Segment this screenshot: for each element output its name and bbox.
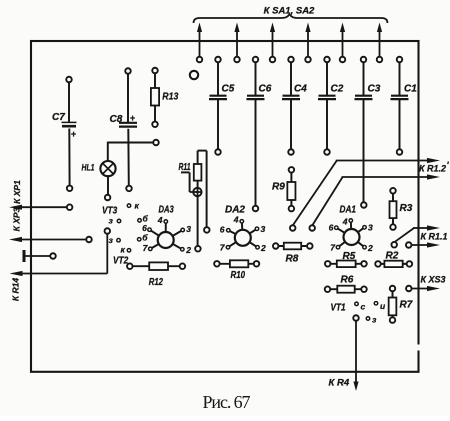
wire to R1.1 (lower) bbox=[411, 244, 429, 246]
svg-text:3: 3 bbox=[261, 224, 266, 234]
node diag pad 1 bbox=[290, 225, 296, 231]
node top pad 9 bbox=[340, 57, 346, 63]
op-amp DA3 bbox=[142, 205, 191, 255]
node HL1 bottom pad bbox=[105, 195, 111, 201]
svg-text:4: 4 bbox=[342, 217, 348, 227]
node VT2 base pad bbox=[137, 238, 141, 242]
wire bbox=[399, 62, 401, 96]
capacitor C5 bbox=[210, 95, 227, 97]
capacitor C8 bbox=[125, 68, 131, 74]
svg-text:HL1: HL1 bbox=[82, 163, 95, 173]
transistor VT1 bbox=[331, 301, 387, 325]
ground stub bbox=[23, 250, 26, 262]
wire to R4 bbox=[355, 321, 357, 383]
svg-text:Рис. 67: Рис. 67 bbox=[203, 392, 251, 412]
resistor R13 bbox=[152, 68, 158, 74]
capacitor C6 bbox=[247, 95, 264, 97]
wire to XS3 bbox=[411, 288, 429, 290]
svg-text:6: 6 bbox=[142, 223, 147, 233]
node top pad 1 bbox=[197, 57, 203, 63]
transistor VT3 bbox=[102, 201, 140, 226]
svg-text:R8: R8 bbox=[286, 254, 299, 265]
svg-text:R9: R9 bbox=[272, 182, 285, 193]
svg-text:DA2: DA2 bbox=[225, 205, 245, 216]
node R11 top pad bbox=[204, 227, 210, 233]
svg-text:R11: R11 bbox=[179, 162, 191, 173]
wire bbox=[363, 62, 365, 96]
svg-text:К R4: К R4 bbox=[329, 378, 350, 389]
mounting hole bbox=[190, 71, 198, 79]
node top pad 7 bbox=[305, 57, 311, 63]
svg-text:+: + bbox=[71, 129, 77, 139]
wire to R1.1 (diag) bbox=[394, 228, 414, 242]
node R11 wiper pad bbox=[195, 246, 201, 252]
node XS3 pad bbox=[406, 286, 412, 292]
node VT1 gate pad bbox=[353, 315, 359, 321]
resistor R9 bbox=[289, 167, 295, 173]
svg-text:з: з bbox=[109, 235, 114, 245]
svg-text:C7: C7 bbox=[52, 112, 65, 123]
svg-text:R6: R6 bbox=[341, 275, 354, 286]
node C6 bottom pad bbox=[253, 206, 259, 212]
svg-text:4: 4 bbox=[233, 214, 239, 224]
wire to R1.2 (upper) bbox=[293, 161, 337, 226]
svg-text:4: 4 bbox=[157, 215, 163, 225]
svg-text:К R1.2: К R1.2 bbox=[419, 164, 446, 174]
node C5 bottom pad bbox=[215, 149, 221, 155]
svg-text:3: 3 bbox=[186, 224, 191, 234]
resistor R3 bbox=[390, 188, 396, 194]
capacitor C3 bbox=[355, 95, 372, 97]
svg-text:VT1: VT1 bbox=[331, 303, 346, 314]
svg-text:К ХS3: К ХS3 bbox=[421, 275, 446, 285]
wire HL1 branch bbox=[108, 142, 154, 144]
op-amp DA1 bbox=[329, 205, 373, 254]
capacitor C2 bbox=[319, 95, 336, 97]
svg-text:К R14: К R14 bbox=[11, 278, 21, 301]
wire arrow to SA1/SA2 #1 bbox=[199, 31, 201, 57]
wire arrow to SA1/SA2 #4 bbox=[307, 31, 309, 57]
capacitor C4 bbox=[283, 95, 300, 97]
node top pad 10 bbox=[361, 57, 367, 63]
resistor R12 bbox=[127, 263, 133, 269]
wire to XP1 bbox=[20, 206, 67, 208]
trimmer R11 bbox=[179, 151, 207, 247]
wire arrow to SA1/SA2 #3 bbox=[272, 31, 274, 57]
node C2 bottom pad bbox=[324, 149, 330, 155]
svg-text:к: к bbox=[121, 245, 126, 255]
svg-text:6: 6 bbox=[329, 223, 334, 233]
resistor R6 bbox=[325, 286, 331, 292]
wire arrow to SA1/SA2 #6 bbox=[379, 31, 381, 57]
svg-text:К ХР1: К ХР1 bbox=[12, 180, 22, 204]
svg-text:C4: C4 bbox=[294, 84, 307, 95]
wire bbox=[290, 62, 292, 96]
wire arrow to SA1/SA2 #2 bbox=[236, 31, 238, 57]
op-amp DA2 bbox=[220, 205, 266, 254]
svg-text:3: 3 bbox=[368, 223, 373, 233]
node C3 bottom pad bbox=[361, 202, 367, 208]
node top pad 5 bbox=[270, 57, 276, 63]
svg-text:и: и bbox=[380, 301, 386, 311]
wire bbox=[326, 62, 328, 96]
svg-text:C3: C3 bbox=[368, 84, 381, 95]
node VT3 base pad bbox=[138, 219, 142, 223]
svg-text:2: 2 bbox=[185, 245, 191, 255]
svg-text:2: 2 bbox=[260, 243, 266, 253]
resistor R5 bbox=[325, 261, 331, 267]
svg-text:К ХР3: К ХР3 bbox=[12, 207, 22, 231]
node C4 bottom pad bbox=[288, 149, 294, 155]
node top pad 4 bbox=[253, 57, 259, 63]
node branch pad bbox=[153, 140, 159, 146]
svg-text:C6: C6 bbox=[259, 84, 272, 95]
brace bbox=[194, 14, 388, 23]
svg-text:2: 2 bbox=[367, 243, 373, 253]
svg-text:R12: R12 bbox=[149, 277, 164, 288]
wire arrow to SA1/SA2 #5 bbox=[342, 31, 344, 57]
svg-text:з: з bbox=[372, 315, 377, 325]
svg-text:R13: R13 bbox=[162, 91, 178, 102]
capacitor C7 bbox=[66, 77, 72, 83]
svg-text:6: 6 bbox=[220, 224, 225, 234]
svg-text:с: с bbox=[361, 302, 366, 312]
svg-text:R3: R3 bbox=[400, 203, 413, 214]
board outline bbox=[31, 41, 419, 372]
svg-text:к: к bbox=[135, 201, 140, 211]
svg-text:DA1: DA1 bbox=[340, 205, 357, 216]
node top pad 3 bbox=[234, 57, 240, 63]
svg-text:VT2: VT2 bbox=[113, 255, 129, 266]
resistor R10 bbox=[214, 261, 220, 267]
node R1.1 pad 2 bbox=[406, 242, 412, 248]
wire to R14 bbox=[21, 273, 108, 275]
node C1 bottom pad bbox=[397, 149, 403, 155]
svg-text:C2: C2 bbox=[331, 84, 344, 95]
capacitor C1 bbox=[391, 95, 408, 97]
resistor R7 bbox=[390, 286, 396, 292]
node top pad 8 bbox=[324, 57, 330, 63]
node top pad 11 bbox=[377, 57, 383, 63]
svg-text:R10: R10 bbox=[231, 270, 246, 281]
node VT2 emitter pad bbox=[105, 228, 111, 234]
lamp HL1 bbox=[100, 161, 115, 176]
svg-text:R7: R7 bbox=[400, 300, 413, 311]
node diag pad 2 bbox=[309, 225, 315, 231]
resistor R2 bbox=[375, 261, 381, 267]
svg-text:DA3: DA3 bbox=[159, 205, 175, 216]
transistor VT2 bbox=[109, 235, 131, 266]
svg-text:C5: C5 bbox=[222, 84, 235, 95]
wire to R1.2 (lower) bbox=[312, 177, 342, 226]
node R1.1 pad 1 bbox=[391, 242, 397, 248]
svg-text:R5: R5 bbox=[343, 251, 356, 262]
wire bbox=[217, 62, 219, 96]
svg-text:R2: R2 bbox=[386, 251, 399, 262]
wire to XP3 bbox=[20, 239, 87, 241]
node top pad 12 bbox=[397, 57, 403, 63]
svg-text:з: з bbox=[109, 216, 114, 226]
node top pad 2 bbox=[215, 57, 221, 63]
resistor R8 bbox=[273, 243, 279, 249]
svg-text:+: + bbox=[130, 113, 136, 123]
svg-text:C1: C1 bbox=[404, 84, 417, 95]
svg-text:К R1.1: К R1.1 bbox=[421, 232, 448, 242]
svg-text:б: б bbox=[142, 233, 148, 243]
wire bbox=[255, 62, 257, 96]
node top pad 6 bbox=[288, 57, 294, 63]
